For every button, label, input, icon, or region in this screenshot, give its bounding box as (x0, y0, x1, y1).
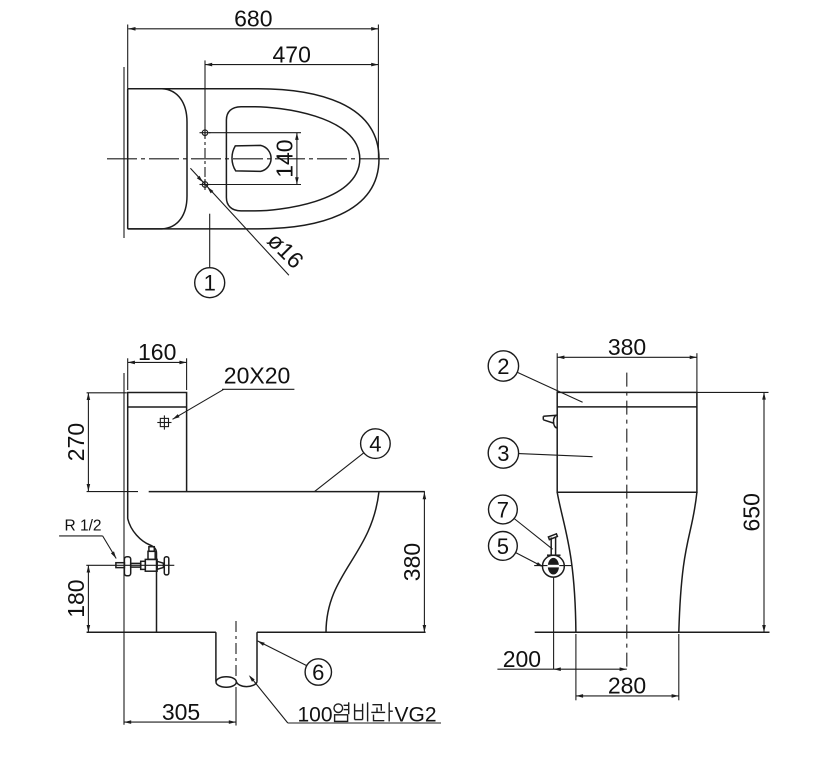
seat bolt hole lower (200, 179, 211, 190)
svg-text:280: 280 (608, 673, 646, 699)
cistern tank outline (top view) (128, 89, 187, 229)
callout balloon 2 (488, 351, 582, 403)
stop valve (side view) (534, 534, 571, 632)
svg-text:100: 100 (298, 703, 333, 726)
callout balloon 3 (488, 438, 592, 468)
tank fixing bolt symbol 20X20 (157, 415, 171, 429)
dimension 180 (63, 565, 90, 632)
svg-text:6: 6 (312, 660, 324, 685)
svg-text:270: 270 (63, 423, 89, 461)
callout balloon 4 (315, 429, 391, 492)
callout balloon 7 (489, 495, 553, 549)
svg-text:20X20: 20X20 (224, 362, 291, 388)
outlet pipe centerline (front view) (235, 621, 237, 688)
bowl left profile (side view) (557, 492, 576, 632)
flush lever (side view) (543, 415, 557, 428)
tank outline (front view) (128, 393, 187, 519)
pedestal left outline (front view) (128, 519, 157, 633)
bolt hole centerline (top view) (204, 129, 206, 186)
svg-text:200: 200 (503, 646, 541, 672)
dimension 305 (124, 688, 236, 726)
callout balloon 6 (258, 641, 332, 685)
label 100yeombigwan VG2 with leader (249, 675, 441, 726)
svg-text:470: 470 (273, 41, 311, 67)
trap S-curve (front view) (326, 492, 379, 632)
bowl rim top line (front view) (149, 491, 425, 493)
label 20X20 with leader (173, 362, 295, 419)
callout balloon 5 (489, 532, 544, 568)
svg-text:650: 650 (739, 493, 765, 531)
svg-text:7: 7 (497, 497, 509, 522)
stop valve (front view) (86, 547, 174, 576)
svg-text:305: 305 (162, 699, 200, 725)
tank top extension line (side view) (697, 391, 769, 393)
svg-text:VG2: VG2 (395, 703, 437, 726)
wall line (top view) (123, 67, 125, 238)
bowl right profile (side view) (679, 492, 697, 632)
dimension 470 (205, 41, 378, 127)
dimension 160 (128, 339, 187, 390)
svg-text:2: 2 (497, 354, 509, 379)
korean glyph gwan (371, 702, 393, 721)
svg-text:5: 5 (497, 534, 509, 559)
korean glyph yeom (334, 702, 349, 721)
label VG2 text (395, 703, 437, 726)
seat bolt hole upper (200, 127, 211, 138)
leader and label Ø16 (190, 168, 308, 275)
svg-text:R 1/2: R 1/2 (65, 517, 102, 534)
svg-text:160: 160 (138, 339, 176, 365)
svg-text:4: 4 (369, 432, 381, 457)
svg-text:680: 680 (234, 6, 272, 32)
dimension 380 (front view) (399, 492, 426, 632)
dimension 650 (739, 392, 766, 632)
callout balloon 1 (195, 214, 225, 298)
horizontal centerline (top view) (107, 158, 391, 160)
dimension 200 (497, 646, 626, 672)
floor line (side view) (535, 631, 770, 633)
wall line (front view) (123, 373, 125, 725)
dimension 140 (209, 133, 301, 185)
dimension 270 (63, 393, 138, 492)
svg-text:1: 1 (204, 271, 216, 296)
svg-text:380: 380 (608, 334, 646, 360)
floor line (front view) (87, 631, 426, 633)
dimension 680 (128, 6, 379, 159)
bowl outer rim outline (top view) (128, 89, 379, 229)
svg-text:380: 380 (399, 543, 425, 581)
tank outline (side view) (557, 392, 697, 492)
dimension 380 (side view) (557, 334, 697, 392)
svg-text:3: 3 (497, 441, 509, 466)
vertical centerline (side view) (626, 373, 628, 670)
svg-text:180: 180 (63, 579, 89, 617)
dimension 280 (576, 634, 679, 700)
outlet pipe (front view) (216, 632, 257, 687)
seat opening inner ring (top view) (226, 107, 359, 211)
valve supply extension (side view) (553, 632, 555, 669)
label R 1/2 with leader (59, 517, 116, 558)
korean glyph bi (355, 702, 368, 721)
water surface outline (top view) (232, 145, 271, 171)
svg-text:140: 140 (271, 139, 297, 177)
